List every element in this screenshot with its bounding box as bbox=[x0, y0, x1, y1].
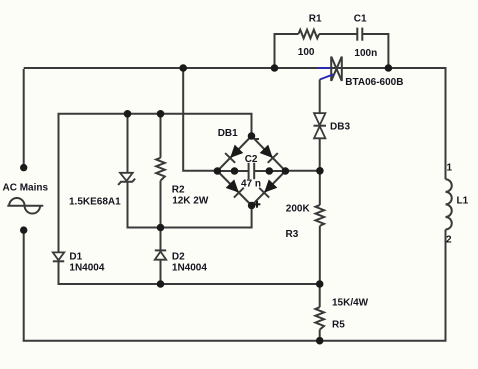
svg-text:DB3: DB3 bbox=[330, 122, 350, 133]
svg-text:200K: 200K bbox=[286, 204, 311, 215]
resistor R3 bbox=[316, 205, 325, 226]
wire zener column from rail down to zener bbox=[127, 114, 129, 173]
inductor L1 bbox=[446, 179, 452, 229]
wire D2 column bottom lead bbox=[160, 260, 162, 284]
node junction snubber right bbox=[385, 64, 393, 72]
wire second rail y=113.8 with corner down to D1 column bbox=[59, 114, 252, 253]
wire left column top: corner to AC top terminal bbox=[23, 69, 25, 168]
diac DB3 bbox=[314, 113, 327, 138]
svg-text:AC Mains: AC Mains bbox=[3, 183, 49, 194]
resistor R2 bbox=[156, 158, 165, 181]
svg-text:R1: R1 bbox=[309, 14, 322, 25]
node junction bottom rail R5 bbox=[316, 337, 324, 345]
svg-text:C1: C1 bbox=[354, 14, 367, 25]
node snubber left junction riser bbox=[275, 34, 299, 68]
svg-text:R5: R5 bbox=[332, 320, 345, 331]
wire right column below L1 bbox=[445, 230, 447, 342]
node junction rail y=284 D2 bbox=[157, 280, 165, 288]
svg-text:1: 1 bbox=[447, 163, 453, 174]
wire bridge right node to R3 column bbox=[285, 170, 320, 172]
node junction rail2 zener bbox=[124, 110, 132, 118]
wire zener bottom to lower rail and lower rail y=227.5 to bridge bottom elbow bbox=[128, 181, 252, 227]
resistor R1 bbox=[298, 30, 319, 39]
node bridge top bbox=[248, 132, 256, 140]
svg-text:12K 2W: 12K 2W bbox=[172, 196, 209, 207]
node bridge right bbox=[282, 167, 290, 175]
node bridge bottom bbox=[248, 202, 256, 210]
wire from top rail junction down to bridge left node bbox=[183, 68, 217, 171]
wire diac to bridge-right junction bbox=[319, 138, 321, 170]
wire R2 column bottom lead bbox=[160, 181, 162, 228]
wire R1 to C1 bbox=[319, 33, 357, 35]
label + (bridge plus) bbox=[254, 201, 261, 208]
svg-text:47 n: 47 n bbox=[241, 179, 261, 190]
wire R3 top lead bbox=[319, 171, 321, 206]
wire triac gate (blue) bbox=[320, 74, 334, 79]
svg-text:R3: R3 bbox=[286, 229, 299, 240]
wire D2 column top lead bbox=[160, 228, 162, 251]
wire through triac bbox=[331, 67, 342, 69]
svg-text:100: 100 bbox=[298, 47, 315, 58]
node bridge left bbox=[214, 167, 222, 175]
svg-text:D1: D1 bbox=[69, 252, 82, 263]
node AC top terminal bbox=[20, 164, 27, 171]
svg-text:1.5KE68A1: 1.5KE68A1 bbox=[69, 197, 121, 208]
resistor R5 bbox=[315, 307, 324, 329]
label minus tick at bridge top bbox=[255, 138, 259, 140]
node C2 right bbox=[266, 167, 274, 175]
svg-text:15K/4W: 15K/4W bbox=[332, 298, 369, 309]
wire left column bottom: AC bottom terminal down to bottom wire bbox=[23, 230, 25, 341]
svg-text:1N4004: 1N4004 bbox=[69, 262, 104, 273]
node junction lower rail R2/D2 bbox=[157, 224, 165, 232]
svg-text:L1: L1 bbox=[457, 196, 469, 207]
diode D1 1N4004 (points down) bbox=[53, 252, 64, 261]
triac U1 BTA06-600B bbox=[331, 57, 342, 82]
bridge diode top-right (points to right node) bbox=[259, 144, 278, 163]
wire C1 to snubber right junction riser bbox=[362, 34, 388, 68]
wire top main y=68 triac to top-right corner, down right column to L1 bbox=[342, 68, 446, 179]
node AC bottom terminal bbox=[20, 226, 27, 233]
bridge diode bottom-right (points to bottom node) bbox=[259, 179, 278, 198]
svg-text:100n: 100n bbox=[354, 48, 377, 59]
AC mains source bbox=[7, 198, 43, 213]
node junction top rail at bridge drop bbox=[179, 64, 187, 72]
capacitor C1 bbox=[357, 28, 362, 41]
wire R5 top lead bbox=[319, 284, 321, 307]
bridge rectifier DB1 diamond bbox=[217, 136, 285, 206]
node junction snubber left bbox=[271, 64, 279, 72]
wire top main y=68 from left column to triac bbox=[24, 67, 318, 69]
svg-text:D2: D2 bbox=[172, 252, 185, 263]
svg-text:R2: R2 bbox=[172, 185, 185, 196]
wire R3 bottom lead bbox=[319, 226, 321, 284]
svg-text:2: 2 bbox=[446, 235, 452, 246]
wire bottom main y=340.7 bbox=[23, 340, 446, 342]
node junction bridge-right rail / R3 bbox=[316, 167, 324, 175]
TVS diode 1.5KE68A1 bbox=[118, 173, 135, 185]
svg-text:C2: C2 bbox=[245, 154, 258, 165]
wire blue segment before triac gate side bbox=[318, 67, 331, 69]
bridge diode bottom-left (points to bottom node) bbox=[225, 179, 244, 198]
wire D1 bottom lead and rail y=284 to R3/R5 junction bbox=[59, 262, 320, 285]
node C2 left bbox=[231, 167, 239, 175]
wire R5 bottom lead bbox=[319, 330, 321, 341]
diode D2 1N4004 (points up) bbox=[155, 250, 166, 259]
wire gate down to diac bbox=[319, 80, 321, 115]
svg-text:DB1: DB1 bbox=[218, 128, 238, 139]
bridge diode top-left (points to left node) bbox=[225, 144, 244, 163]
svg-text:BTA06-600B: BTA06-600B bbox=[345, 77, 403, 88]
node junction rail y=284 R3/R5 bbox=[316, 280, 324, 288]
svg-text:1N4004: 1N4004 bbox=[172, 262, 207, 273]
wire R2 column top lead bbox=[160, 114, 162, 158]
capacitor C2 inside bridge bbox=[217, 163, 285, 179]
node junction rail2 R2 bbox=[157, 110, 165, 118]
